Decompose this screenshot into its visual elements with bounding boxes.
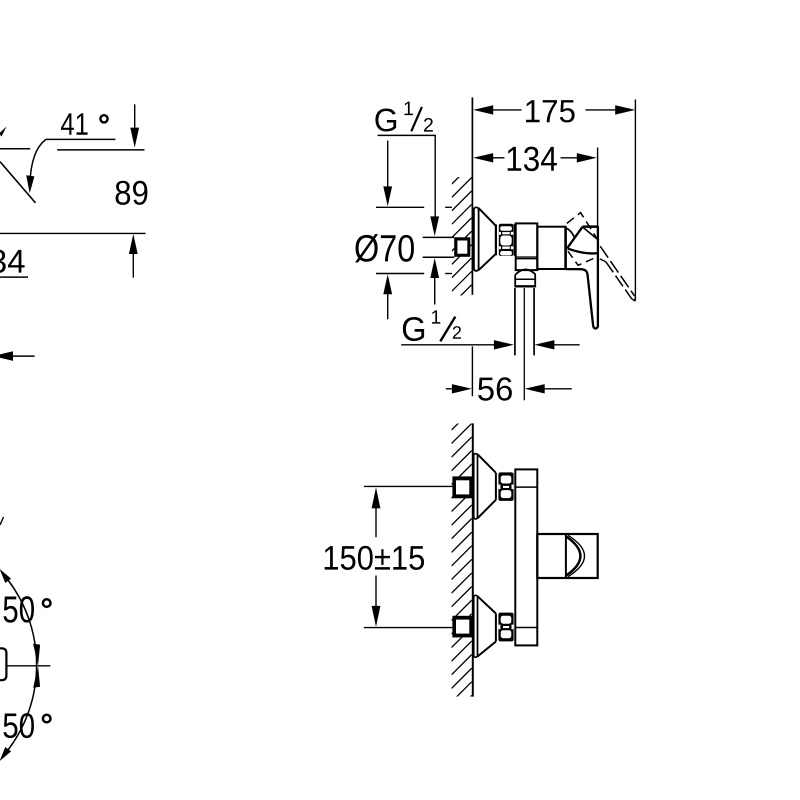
dim 56 — [446, 388, 453, 390]
SIDE VIEW — [355, 97, 635, 400]
outlet housing — [516, 223, 538, 270]
knob — [537, 534, 597, 578]
wall hatching side — [452, 164, 472, 318]
cone top — [478, 454, 496, 473]
down arrow 89 top — [134, 104, 136, 129]
left arrow — [0, 351, 13, 361]
dim 150 — [372, 487, 381, 508]
centerline — [6, 665, 50, 667]
flange bottom — [474, 595, 478, 657]
lever dashed open top — [567, 213, 599, 242]
ext line right 175 — [634, 100, 636, 301]
label diameter 70 — [355, 234, 414, 262]
label 89 — [116, 181, 148, 205]
union square side — [454, 237, 470, 256]
nipple leader lines — [423, 236, 455, 238]
union square top — [452, 476, 472, 498]
label 134 cropped — [0, 250, 25, 273]
escutcheon cone side — [479, 208, 496, 226]
diagonal line — [0, 162, 36, 203]
underline 134 — [0, 276, 28, 278]
wall face line bottom — [472, 423, 474, 696]
hex nut side — [499, 224, 514, 256]
hex nut top — [498, 472, 513, 501]
tick — [0, 517, 4, 525]
reference line 41deg — [57, 149, 144, 151]
dimension line 89 — [0, 232, 146, 234]
ext line 134 — [597, 148, 599, 232]
lever hub — [567, 227, 582, 249]
spigot — [514, 274, 516, 287]
dim 175 — [493, 109, 522, 111]
ext line bottom — [364, 627, 453, 629]
cone bottom — [478, 596, 496, 613]
body plate — [515, 469, 537, 645]
label 150 plus minus 15 — [325, 546, 424, 570]
label 56 — [478, 377, 512, 400]
underline 41 — [46, 138, 116, 140]
outlet dome — [516, 270, 536, 275]
open blade lines — [600, 246, 634, 296]
leader G12 to nipple — [434, 135, 436, 217]
label 41 degrees — [61, 113, 88, 134]
dim 134 — [493, 157, 505, 159]
opposing arrow pipe — [534, 340, 554, 349]
arrowhead fragment top-left — [0, 127, 7, 137]
union square bottom — [452, 616, 472, 638]
leader G12 lower — [401, 344, 494, 346]
pipe — [514, 288, 516, 355]
label 175 — [526, 100, 575, 122]
label G 1/2 top — [375, 109, 396, 132]
ext line top — [364, 485, 453, 487]
lever dashed open bottom — [568, 251, 597, 265]
label G 1/2 lower — [403, 317, 424, 341]
ext line wall lower — [471, 346, 473, 396]
lever blade closed — [566, 227, 598, 329]
label 134 — [508, 147, 557, 172]
escutcheon flange side — [474, 207, 479, 270]
dim O70 arrows — [387, 141, 389, 188]
pipe centerline — [523, 288, 525, 400]
wall face line — [471, 97, 473, 294]
reference line upper left — [0, 148, 30, 150]
cartridge dome arc — [567, 228, 574, 237]
label 50 degrees lower — [3, 713, 33, 738]
valve body block — [537, 227, 565, 269]
underline G12 top — [378, 134, 436, 136]
wall hatching bottom — [452, 410, 472, 716]
LEFT CROPPED VIEW — [0, 104, 147, 761]
converging arrows 50deg — [33, 644, 40, 666]
flange top — [474, 454, 478, 519]
lever knob cap — [0, 648, 6, 680]
up arrow 89 bottom — [129, 234, 138, 254]
label 50 degrees upper — [3, 596, 33, 623]
swivel arc — [8, 580, 37, 750]
BOTTOM VIEW — [325, 410, 598, 716]
leader arc 41 — [30, 139, 46, 184]
hex nut bottom — [498, 613, 513, 642]
washer — [514, 224, 516, 256]
ext lines O70 — [376, 206, 424, 208]
